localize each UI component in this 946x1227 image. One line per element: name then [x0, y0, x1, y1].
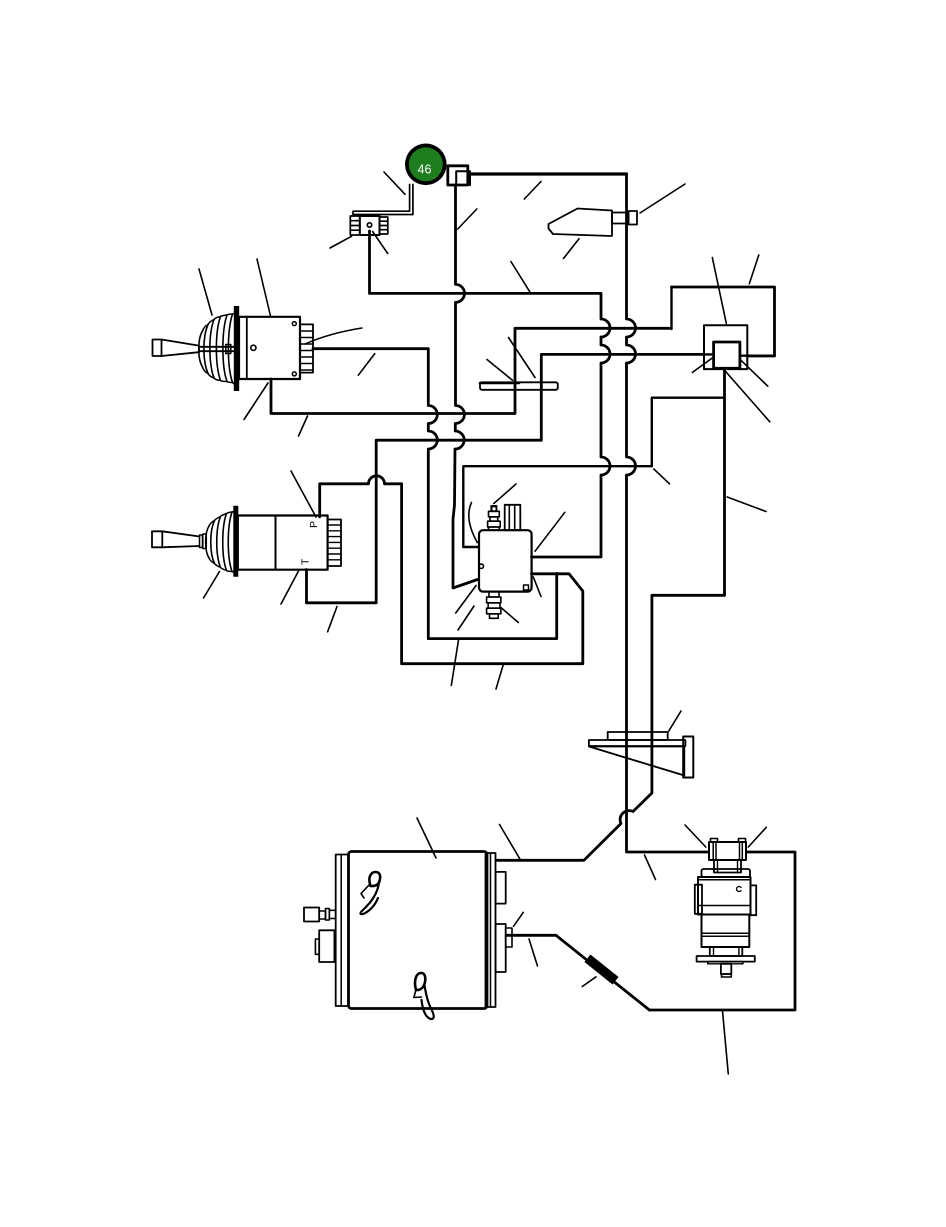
svg-text:P: P [308, 521, 320, 528]
svg-text:46: 46 [418, 163, 432, 177]
svg-text:T: T [300, 558, 312, 565]
